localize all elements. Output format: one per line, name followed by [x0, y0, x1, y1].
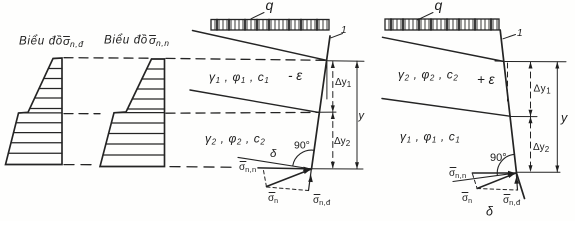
vertical reference at wall top right (dashed) — [507, 63, 509, 101]
middle dashed interface reference line — [64, 113, 100, 115]
svg-text:+ ε: + ε — [477, 72, 496, 87]
svg-text:γ2 , φ2 , c2: γ2 , φ2 , c2 — [398, 68, 458, 83]
top dashed ground reference line — [64, 57, 150, 60]
normal line right — [453, 173, 516, 182]
wall 1 middle — [312, 36, 331, 169]
sigma n,n vector middle — [258, 168, 312, 169]
svg-text:Biểu đồ: Biểu đồ — [104, 35, 148, 47]
pressure diagram 2 hatching — [103, 69, 165, 155]
outer dimension line right — [556, 62, 558, 173]
pressure diagram 2 outline — [100, 59, 165, 167]
svg-text:Δy1: Δy1 — [534, 84, 552, 96]
svg-text:σn,n: σn,n — [239, 162, 257, 174]
svg-text:q: q — [266, 0, 274, 13]
q leader middle — [251, 13, 264, 19]
inner dimension line middle (dashed) — [332, 62, 334, 169]
component parallelogram dashed middle — [264, 171, 267, 188]
dimension arrows middle — [331, 61, 359, 169]
outer dimension line middle — [356, 61, 358, 169]
svg-text:σn,n: σn,n — [449, 168, 467, 180]
title right: Bieu do sigma n,n — [104, 35, 170, 49]
svg-text:y: y — [358, 110, 366, 122]
svg-text:γ1 , φ1 , c1: γ1 , φ1 , c1 — [400, 130, 460, 145]
surcharge strip right — [385, 19, 499, 30]
sigma n,n vector right — [472, 172, 516, 174]
svg-text:σn: σn — [462, 193, 472, 205]
pressure diagram 1 outline — [6, 58, 63, 165]
interface line middle — [190, 90, 318, 112]
normal line middle — [238, 157, 312, 169]
90 degree arc middle — [293, 150, 315, 166]
svg-text:σn,đ: σn,đ — [63, 36, 84, 49]
component parallelogram dashed right — [473, 174, 478, 189]
svg-text:δ: δ — [486, 205, 494, 219]
svg-text:Δy2: Δy2 — [533, 142, 550, 154]
surcharge strip heavy hatch middle — [217, 20, 317, 31]
svg-text:- ε: - ε — [288, 68, 303, 83]
wall label 1 leader middle — [331, 34, 343, 38]
sigma n,d vector right — [516, 174, 517, 191]
surcharge strip hatch right — [389, 19, 497, 30]
sigma n vector middle — [267, 169, 312, 187]
pressure diagram 1 hatching — [8, 69, 62, 154]
overbar sigma title2 — [150, 35, 156, 37]
svg-text:q: q — [435, 0, 443, 13]
svg-text:σn: σn — [268, 193, 278, 205]
svg-text:90°: 90° — [490, 152, 507, 164]
ground surface line middle — [193, 31, 327, 61]
svg-text:Biểu đồ: Biểu đồ — [19, 36, 63, 48]
svg-text:Δy1: Δy1 — [335, 77, 352, 89]
bottom dimension tick right — [516, 171, 560, 173]
wall 1 right — [500, 30, 524, 199]
svg-text:δ: δ — [270, 148, 277, 160]
svg-text:γ1 , φ1 , c1: γ1 , φ1 , c1 — [209, 70, 269, 85]
title left: Bieu do sigma n,d — [19, 36, 84, 50]
bottom dashed base line — [64, 164, 97, 166]
sigma n,d vector middle — [309, 170, 312, 191]
inner dimension line right (dashed) — [530, 62, 532, 172]
surcharge strip hatch middle — [215, 20, 327, 31]
svg-text:1: 1 — [341, 25, 347, 36]
90 degree arc right — [497, 154, 513, 175]
svg-text:1: 1 — [517, 28, 523, 39]
svg-text:Δy2: Δy2 — [334, 136, 351, 148]
vertical reference at wall top middle — [326, 62, 328, 99]
interface line right — [382, 99, 511, 117]
top dimension tick right — [505, 61, 566, 63]
svg-text:y: y — [560, 111, 568, 125]
svg-text:σn,n: σn,n — [149, 35, 170, 48]
interface dimension tick middle — [318, 111, 336, 113]
svg-text:σn,đ: σn,đ — [503, 195, 521, 207]
svg-text:γ2 , φ2 , c2: γ2 , φ2 , c2 — [205, 132, 265, 147]
interface dimension tick right — [511, 116, 537, 118]
wall label 1 leader right — [503, 35, 516, 39]
overbar sigma title1 — [64, 36, 70, 38]
svg-text:σn,đ: σn,đ — [313, 195, 331, 207]
q leader right — [417, 13, 433, 20]
surcharge strip heavy hatch right — [391, 19, 491, 30]
bottom dimension tick middle — [312, 168, 364, 170]
dimension arrows right — [529, 62, 560, 173]
sigma n vector right — [477, 173, 516, 189]
ground surface line right — [383, 37, 505, 61]
top dimension tick middle — [327, 60, 364, 62]
svg-text:90°: 90° — [294, 140, 310, 152]
surcharge strip middle — [211, 20, 329, 31]
